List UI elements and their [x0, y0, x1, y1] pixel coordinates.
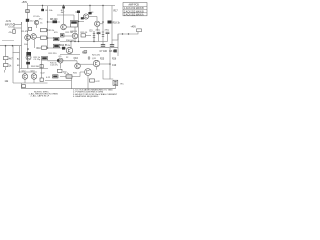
- junction: [47, 21, 48, 22]
- svg-text:Q11: Q11: [92, 58, 97, 60]
- fuse F1: [26, 10, 30, 13]
- svg-text:0.22: 0.22: [46, 77, 51, 79]
- wire: [89, 6, 91, 13]
- svg-text:470: 470: [54, 32, 58, 34]
- junction: [27, 48, 29, 50]
- resistor R5: [28, 27, 31, 30]
- tick: [19, 70, 21, 73]
- wire: [34, 40, 36, 48]
- wire: [2, 39, 14, 41]
- svg-text:J1 IN: J1 IN: [6, 21, 12, 23]
- fuse F2 box: [137, 29, 142, 32]
- wire: [80, 63, 93, 65]
- wire: [87, 75, 89, 88]
- svg-text:L1 2u: L1 2u: [64, 73, 70, 75]
- wire supply staircase: [112, 32, 138, 40]
- output terminal marks: [114, 82, 116, 85]
- transistor Q1: [25, 35, 31, 41]
- resistor R14a body: [81, 17, 84, 19]
- wire: [57, 14, 74, 16]
- resistor R9: [54, 37, 60, 40]
- capacitor C5: [26, 52, 31, 56]
- diode D2 dot: [61, 34, 63, 36]
- capacitor C11: [22, 85, 26, 88]
- wire: [74, 27, 76, 33]
- input jack J1: [13, 24, 15, 26]
- diode D1: [88, 12, 91, 14]
- capacitor C8: [110, 45, 114, 47]
- svg-text:R26: R26: [112, 59, 117, 61]
- resistor R6: [41, 28, 47, 31]
- transistor Q7: [72, 33, 78, 39]
- capacitor C3 blob: [77, 11, 80, 14]
- output terminal block: [113, 80, 118, 85]
- coil L1: [66, 75, 72, 78]
- svg-text:R5 47k: R5 47k: [22, 31, 30, 33]
- title block: [123, 3, 147, 16]
- wire: [80, 47, 118, 49]
- svg-text:470u: 470u: [96, 30, 101, 32]
- wire: [63, 9, 65, 25]
- svg-text:R14 56: R14 56: [60, 45, 68, 47]
- wire: [96, 67, 98, 70]
- svg-text:C4 22p: C4 22p: [8, 27, 16, 29]
- capacitor C4: [13, 30, 15, 34]
- capacitor C9: [40, 65, 43, 68]
- wire: [5, 67, 7, 70]
- wire: [110, 48, 113, 79]
- wire: [14, 27, 22, 29]
- wire: [95, 41, 108, 43]
- wire: [117, 34, 119, 56]
- title block row line: [123, 12, 147, 14]
- resistor R3: [4, 57, 9, 60]
- svg-text:4k7: 4k7: [61, 12, 65, 14]
- svg-text:R31: R31: [73, 73, 78, 75]
- capacitor C13: [26, 62, 30, 65]
- wire: [13, 28, 15, 30]
- wire left vertical bus: [27, 3, 29, 69]
- svg-text:RC: RC: [121, 84, 125, 86]
- wire: [45, 80, 72, 82]
- svg-text:R8 220: R8 220: [50, 19, 58, 21]
- svg-text:4k7: 4k7: [9, 59, 13, 61]
- resistor R27: [40, 78, 43, 81]
- junction: [63, 5, 64, 6]
- svg-text:22: 22: [66, 57, 69, 59]
- svg-text:1k: 1k: [40, 23, 43, 25]
- junction: [47, 29, 49, 31]
- capacitor C1: [26, 19, 29, 22]
- svg-text:47u: 47u: [39, 19, 43, 21]
- junction: [74, 41, 75, 42]
- svg-text:470u: 470u: [105, 30, 110, 32]
- junction: [128, 33, 129, 34]
- wire: [66, 26, 70, 28]
- svg-text:R25: R25: [100, 59, 105, 61]
- resistor R12: [81, 34, 86, 37]
- junction: [102, 21, 104, 23]
- wire: [48, 37, 54, 39]
- junction: [102, 5, 103, 6]
- svg-text:Q10: Q10: [74, 58, 79, 60]
- capacitor C7: [101, 45, 105, 47]
- wire top supply bus: [28, 5, 116, 7]
- wire: [21, 22, 23, 69]
- resistor R2: [62, 6, 65, 8]
- title block row line: [123, 9, 147, 11]
- wire: [33, 79, 35, 83]
- svg-text:2 ACX-252 MAIN B: 2 ACX-252 MAIN B: [124, 10, 144, 13]
- wire: [98, 34, 100, 42]
- wire: [27, 64, 29, 68]
- junction: [47, 47, 49, 49]
- junction: [70, 41, 71, 42]
- junction: [5, 45, 7, 47]
- wire: [18, 71, 37, 73]
- wire: [5, 60, 7, 64]
- svg-text:1k: 1k: [9, 66, 12, 68]
- wire: [36, 37, 40, 39]
- svg-text:Q9: Q9: [59, 56, 63, 58]
- wire: [74, 39, 76, 42]
- svg-text:A1: A1: [17, 58, 20, 61]
- svg-text:R18 1k: R18 1k: [113, 23, 121, 25]
- resistor R1: [42, 6, 44, 9]
- wire rail: [78, 13, 80, 42]
- wire: [48, 47, 67, 49]
- svg-text:R13 220: R13 220: [49, 53, 58, 55]
- svg-text:0.22: 0.22: [96, 81, 101, 83]
- wire: [33, 72, 35, 74]
- svg-text:+45V: +45V: [131, 26, 137, 28]
- wire: [76, 61, 78, 63]
- transistor Q11: [93, 60, 99, 66]
- wire: [96, 17, 98, 22]
- svg-text:0.22: 0.22: [41, 73, 46, 75]
- wire: [73, 15, 75, 21]
- resistor R29: [53, 75, 59, 78]
- junction: [12, 45, 14, 47]
- junction: [42, 5, 43, 6]
- diode stack D3: [93, 31, 95, 42]
- svg-text:1 ACX-152 MAIN B: 1 ACX-152 MAIN B: [124, 7, 144, 10]
- wire: [86, 34, 92, 36]
- transistor Q7: [26, 55, 31, 60]
- transistor Q10: [75, 63, 81, 69]
- wire: [71, 78, 73, 89]
- junction: [93, 41, 94, 42]
- junction: [47, 37, 49, 39]
- wire: [48, 60, 78, 62]
- wire: [60, 63, 62, 68]
- junction: [89, 5, 90, 6]
- wire: [111, 6, 113, 45]
- svg-text:R21 220: R21 220: [92, 55, 101, 57]
- wire: [107, 34, 109, 42]
- wire: [13, 52, 20, 54]
- wire: [5, 46, 7, 57]
- wire: [19, 46, 21, 70]
- diode D2: [61, 34, 65, 38]
- wire: [70, 42, 72, 48]
- transistor Q9: [58, 58, 63, 63]
- svg-text:R17: R17: [114, 11, 119, 13]
- bias block VR1: [42, 57, 48, 61]
- wire: [103, 70, 110, 79]
- wire: [36, 25, 38, 28]
- capacitor C15: [57, 59, 59, 61]
- wire input: [15, 24, 22, 26]
- junction: [78, 41, 79, 42]
- wire: [79, 21, 85, 23]
- wire bottom return: [22, 88, 116, 90]
- resistor R8: [53, 20, 58, 23]
- svg-text:4. HEATSINK REQUIRED: 4. HEATSINK REQUIRED: [73, 95, 99, 98]
- svg-text:D3: D3: [90, 31, 94, 33]
- wire: [12, 46, 14, 83]
- wire: [20, 68, 48, 70]
- svg-text:R24 330: R24 330: [31, 66, 40, 68]
- svg-text:2k: 2k: [68, 45, 71, 47]
- wire: [21, 83, 23, 89]
- svg-text:C7 100: C7 100: [100, 51, 108, 53]
- wire: [60, 54, 80, 56]
- transistor Q4: [95, 21, 100, 26]
- tick: [4, 70, 6, 73]
- wire: [114, 85, 116, 88]
- wire: [102, 6, 104, 45]
- transistor Q3: [83, 14, 88, 19]
- relay RY1 text: [71, 21, 77, 23]
- svg-text:2. ALL CAPS IN uF: 2. ALL CAPS IN uF: [31, 94, 50, 97]
- svg-text:3 ACX-352 MAIN A: 3 ACX-352 MAIN A: [124, 14, 144, 17]
- wire: [13, 82, 48, 84]
- wire: [64, 35, 72, 37]
- transistor Q13: [31, 74, 37, 80]
- svg-text:C14 47u: C14 47u: [50, 65, 59, 67]
- title block row line: [123, 5, 147, 7]
- svg-text:R1 10k: R1 10k: [46, 10, 54, 12]
- transistor Q14: [85, 69, 92, 76]
- svg-text:C10: C10: [112, 65, 117, 67]
- wire: [24, 79, 26, 83]
- svg-text:R19 10: R19 10: [81, 32, 89, 34]
- wire: [24, 72, 26, 74]
- resistor R24 body: [58, 69, 63, 72]
- capacitor C17: [106, 32, 110, 33]
- resistor R20 body: [84, 51, 87, 53]
- transistor Q2: [31, 34, 37, 40]
- wire: [47, 6, 49, 48]
- diode stack D4: [102, 32, 104, 37]
- relay RY1: [71, 21, 78, 28]
- wire: [48, 21, 61, 23]
- svg-text:12k: 12k: [5, 81, 10, 83]
- svg-text:B1: B1: [17, 65, 20, 67]
- transistor Q5: [34, 20, 38, 24]
- wire: [60, 72, 85, 77]
- svg-text:R10: R10: [37, 48, 42, 50]
- capacitor C16: [97, 32, 101, 33]
- resistor R4: [4, 64, 9, 67]
- wire: [96, 27, 98, 32]
- wire: [100, 63, 110, 65]
- resistor R10: [42, 46, 47, 49]
- transistor Q8: [66, 47, 72, 53]
- svg-text:2k2: 2k2: [30, 20, 34, 22]
- resistor R13: [54, 44, 60, 48]
- resistor R18: [108, 21, 112, 24]
- junction: [122, 33, 123, 34]
- transistor Q6: [61, 24, 67, 30]
- wire: [60, 41, 95, 43]
- junction: [78, 21, 79, 22]
- capacitor C6: [62, 47, 65, 50]
- resistor R30: [90, 79, 95, 82]
- svg-text:+50V: +50V: [22, 1, 28, 4]
- resistor R7: [41, 36, 47, 39]
- wire: [100, 23, 103, 25]
- diode D6: [88, 56, 90, 60]
- svg-text:C9 22p: C9 22p: [34, 59, 42, 61]
- transistor Q12: [22, 74, 28, 80]
- wire: [0, 45, 22, 47]
- junction: [109, 63, 111, 65]
- zener Z5: [114, 49, 117, 52]
- wire: [89, 16, 97, 18]
- svg-text:BD139: BD139: [71, 31, 78, 33]
- wire: [21, 22, 23, 25]
- wire: [41, 60, 43, 78]
- svg-text:47k: 47k: [9, 32, 13, 34]
- svg-text:Q3: Q3: [91, 12, 95, 14]
